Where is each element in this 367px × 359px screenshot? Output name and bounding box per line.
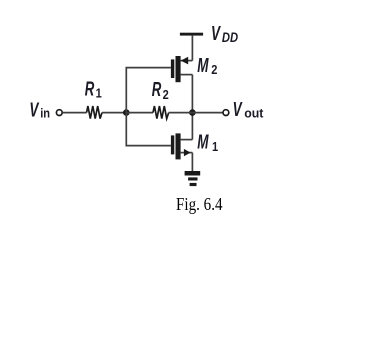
svg-text:1: 1: [212, 139, 218, 154]
svg-text:R: R: [85, 78, 95, 100]
svg-text:M: M: [197, 53, 209, 77]
wire node A to R2: [126, 112, 153, 114]
label R2: [152, 78, 169, 102]
svg-text:out: out: [244, 106, 264, 120]
wire M2 drain to M1 drain through node B: [191, 75, 193, 140]
wire R1 to node A: [102, 112, 126, 114]
terminal Vin: [56, 110, 62, 116]
wire M1 source to ground: [191, 153, 193, 172]
resistor R1: [87, 106, 102, 119]
wire node A up to M2 gate: [126, 68, 171, 113]
svg-text:M: M: [197, 130, 209, 154]
svg-text:V: V: [233, 97, 243, 121]
label M2: [197, 53, 217, 77]
svg-text:V: V: [211, 21, 221, 45]
label Vout: [233, 97, 265, 121]
wire node B to Vout terminal: [192, 112, 223, 114]
label Vin: [29, 98, 50, 122]
transistor M1: [171, 133, 193, 159]
power supply VDD bar: [180, 33, 203, 36]
svg-text:V: V: [29, 98, 39, 122]
resistor R2: [153, 106, 169, 119]
label M1: [197, 130, 218, 154]
svg-text:DD: DD: [222, 30, 238, 45]
transistor M2: [171, 56, 193, 82]
ground: [185, 171, 201, 186]
label VDD: [211, 21, 238, 45]
wire Vin terminal to R1: [62, 112, 86, 114]
svg-text:2: 2: [163, 87, 169, 102]
svg-text:Fig. 6.4: Fig. 6.4: [176, 194, 223, 214]
terminal Vout: [223, 110, 229, 116]
wire R2 to node B: [169, 112, 193, 114]
svg-text:2: 2: [211, 62, 217, 77]
svg-text:1: 1: [96, 85, 102, 100]
wire VDD bar to M2 source: [191, 36, 193, 61]
label R1: [85, 78, 102, 101]
node B junction dot: [189, 109, 196, 116]
node A junction dot: [123, 109, 130, 116]
svg-text:in: in: [40, 105, 50, 120]
wire node A down to M1 gate: [126, 113, 171, 146]
svg-text:R: R: [152, 78, 162, 100]
